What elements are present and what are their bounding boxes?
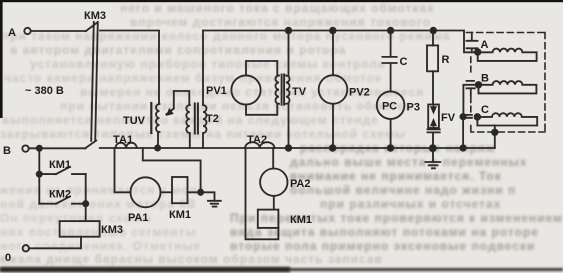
node junction B: [476, 82, 482, 88]
coil KM1: [172, 177, 188, 203]
voltmeter PV2: [319, 75, 348, 104]
wire TUV wiper arrow: [166, 91, 174, 114]
wire B phase in: [29, 147, 86, 149]
svg-text:ТА2: ТА2: [247, 134, 267, 146]
ammeter PA2: [260, 169, 287, 196]
wire R leads: [432, 31, 434, 105]
wire PA2 to KM1b: [273, 196, 275, 210]
transformer TA2: [245, 142, 274, 148]
svg-text:0: 0: [5, 252, 11, 264]
winding C: [477, 113, 537, 125]
transformer TV core: [282, 75, 285, 105]
node junction exit: [492, 130, 498, 136]
voltmeter PV1: [231, 75, 260, 104]
autotransformer TUV core: [150, 103, 152, 133]
svg-text:В: В: [3, 145, 11, 157]
svg-text:TUV: TUV: [123, 115, 146, 127]
node junction KM1 tap: [37, 172, 42, 177]
wire TA2 right tap: [272, 148, 274, 169]
arrester FV: [428, 105, 439, 129]
transformer T2 core: [195, 104, 198, 134]
clamp C: [466, 115, 472, 118]
node junction TUV-bus: [155, 145, 160, 150]
wire top bus: [203, 31, 478, 53]
KM3 linkage bar: [91, 22, 98, 141]
svg-text:РС: РС: [382, 101, 397, 113]
ammeter PA1: [131, 177, 161, 207]
svg-text:Р3: Р3: [407, 102, 420, 114]
node junction C top: [388, 28, 394, 34]
dashed enclosure: [467, 33, 546, 133]
wire PA1 to KM1 coil: [161, 191, 173, 193]
transformer TV secondary: [286, 75, 290, 103]
node 0 terminal: [23, 245, 29, 251]
svg-text:КМ3: КМ3: [84, 10, 106, 22]
dashed enclosure left edge: [470, 57, 472, 132]
winding B: [479, 81, 537, 93]
wire FV-C clamp riser: [462, 117, 464, 148]
svg-text:FV: FV: [441, 112, 456, 124]
wire KM1 to junction: [188, 191, 201, 193]
coil KM3: [60, 221, 100, 237]
svg-text:КМ1: КМ1: [290, 214, 312, 226]
wire A bus to TUV: [100, 31, 159, 105]
wire PV1 bracket top: [246, 61, 277, 75]
svg-text:PV1: PV1: [206, 85, 227, 97]
resistor R: [427, 45, 438, 71]
transformer T2 secondary: [203, 31, 207, 149]
contact KM1: [39, 167, 85, 174]
wire B feed: [463, 85, 478, 117]
ground 1: [201, 192, 221, 206]
node junction PV2 bottom: [330, 145, 336, 151]
wire FV bottom: [432, 132, 434, 148]
transformer TA1: [116, 143, 137, 148]
node junction KM2-rail: [83, 201, 88, 206]
svg-text:ТА1: ТА1: [113, 134, 133, 146]
svg-text:A: A: [481, 39, 489, 51]
svg-text:КМ1: КМ1: [49, 159, 71, 171]
contact KM3 pole A blade: [86, 22, 98, 31]
dark bottom band: [0, 268, 563, 271]
node junction B drop: [37, 146, 42, 151]
meter PC: [377, 91, 405, 119]
autotransformer TUV coil: [156, 104, 160, 132]
node junction FV-bus: [430, 145, 436, 151]
svg-text:С: С: [400, 56, 408, 68]
wire winding exit: [494, 126, 496, 149]
svg-text:КМ3: КМ3: [101, 224, 123, 236]
svg-text:КМ1: КМ1: [169, 209, 191, 221]
node junction riser bottom: [460, 145, 465, 150]
node junction PC bottom: [388, 145, 394, 151]
node junction PV2 top: [330, 28, 336, 34]
svg-text:РА2: РА2: [290, 178, 310, 190]
clamp B: [467, 81, 475, 96]
wire to 0 terminal: [29, 237, 81, 249]
node junction TV top: [286, 28, 292, 34]
transformer T2 primary: [186, 105, 190, 148]
wire right rail: [85, 174, 87, 221]
ground 2: [425, 148, 440, 168]
svg-text:B: B: [481, 73, 489, 85]
svg-text:КМ2: КМ2: [49, 189, 71, 201]
node A terminal: [24, 28, 30, 34]
coil KM1b: [258, 210, 279, 228]
node junction riser top: [460, 114, 465, 119]
capacitor C: [382, 31, 396, 92]
svg-text:~ 380 В: ~ 380 В: [25, 85, 64, 97]
svg-text:РА1: РА1: [128, 212, 148, 224]
contact KM2: [39, 196, 85, 203]
svg-text:Т2: Т2: [206, 113, 219, 125]
transformer TV primary: [275, 75, 279, 103]
clamp A: [467, 33, 478, 53]
wire PC bottom: [390, 119, 392, 148]
wire TA1 secondary left tap: [115, 148, 131, 192]
svg-text:A: A: [8, 27, 16, 39]
wire A phase in: [31, 30, 86, 32]
wire PV2 leads: [332, 31, 334, 149]
node junction R top: [431, 28, 437, 34]
node junction A: [475, 49, 481, 55]
svg-text:ТV: ТV: [292, 86, 307, 98]
node junction TV bottom: [286, 145, 292, 151]
svg-text:C: C: [481, 104, 489, 116]
wire bottom bus: [100, 147, 495, 149]
background bleed-through text rows: [120, 1, 435, 15]
frame marks: [0, 0, 563, 2]
wire TA1 secondary right tap: [143, 148, 201, 192]
wire TUV bottom: [157, 132, 159, 148]
node B terminal: [22, 145, 28, 151]
node junction meas: [198, 190, 203, 195]
wire bridge TUV-T2: [174, 91, 190, 105]
wire PV1 bracket bottom: [246, 104, 277, 115]
wire TV secondary leads: [288, 31, 290, 149]
svg-text:R: R: [442, 54, 450, 66]
winding A: [478, 49, 537, 61]
contact KM3 pole B blade: [86, 141, 97, 149]
wire TA2 left tap loop: [246, 148, 279, 239]
wire left rail: [38, 148, 40, 203]
node junction C: [475, 114, 481, 120]
svg-text:PV2: PV2: [349, 87, 370, 99]
